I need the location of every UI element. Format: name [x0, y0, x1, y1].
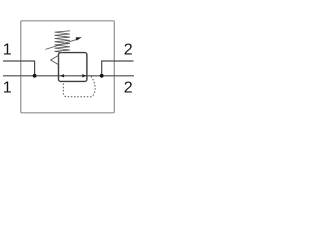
adjustment arrowhead [76, 37, 82, 40]
flow arrowhead left [60, 74, 64, 77]
svg-text:2: 2 [124, 79, 133, 96]
valve body [59, 53, 87, 82]
svg-text:2: 2 [124, 41, 133, 58]
spring [55, 31, 71, 53]
junction right [100, 74, 104, 78]
wire port 2 upper stub [102, 61, 134, 76]
wire main flow line 1 to 2 [3, 75, 134, 77]
svg-text:1: 1 [3, 41, 12, 58]
svg-text:1: 1 [3, 79, 12, 96]
flow arrowhead right [82, 74, 86, 77]
wire port 1 upper stub [3, 61, 35, 76]
exhaust triangle [51, 55, 59, 64]
component frame [21, 21, 115, 113]
adjustment arrow shaft [46, 39, 78, 49]
pilot line dashed [63, 76, 95, 97]
junction left [33, 74, 37, 78]
